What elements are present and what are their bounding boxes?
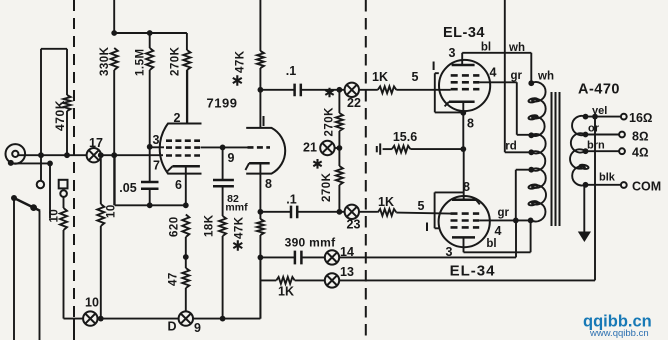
tube EL34 upper cathode lead pin8 <box>462 102 464 149</box>
wire or 8ohm <box>586 134 620 136</box>
svg-text:or: or <box>588 123 600 135</box>
node 620/47 junction <box>183 254 189 260</box>
tube EL34 lower grids <box>451 212 480 215</box>
resistor 270K (upper) <box>338 90 340 113</box>
resistor 10 (left) <box>63 197 65 208</box>
svg-text:13: 13 <box>340 265 354 279</box>
svg-text:7199: 7199 <box>207 96 238 111</box>
node bus right of X10 <box>98 316 104 322</box>
capacitor .1 upper <box>295 84 301 97</box>
wire lower screen to tap <box>516 170 532 221</box>
switch S1 lever <box>14 198 40 211</box>
svg-text:.1: .1 <box>286 64 296 78</box>
node primary gr tap <box>528 167 534 173</box>
tube 7199 triode envelope <box>246 128 285 174</box>
node lower coupling junction <box>337 209 343 215</box>
wire 470K bracket top <box>41 48 67 50</box>
wire plate to transformer <box>462 53 531 83</box>
wire rd B+ lead <box>505 0 532 152</box>
connector 14 <box>325 250 339 264</box>
resistor 1.5M <box>149 33 151 48</box>
label pin 1 (7199) <box>263 116 265 126</box>
node primary rd tap <box>528 149 534 155</box>
terminal open circle below input line <box>37 181 44 188</box>
transformer secondary winding <box>570 116 585 186</box>
svg-text:brn: brn <box>587 140 605 152</box>
svg-text:9: 9 <box>194 321 201 335</box>
node input/470K-left junction <box>38 152 44 158</box>
shield dashed line right <box>365 0 367 340</box>
primary loop crossover <box>528 200 538 206</box>
wire secondary ground <box>583 185 585 232</box>
node secondary 16ohm tap <box>583 114 589 120</box>
primary loop crossover <box>528 184 538 190</box>
svg-text:1K: 1K <box>278 285 294 299</box>
connector 17 <box>87 148 101 162</box>
resistor 47 <box>185 257 187 268</box>
connector 21 <box>320 141 334 155</box>
svg-text:470K: 470K <box>53 100 67 131</box>
label pin 1 upper <box>433 62 435 71</box>
svg-text:A-470: A-470 <box>578 82 620 98</box>
tube 7199 triode cathode <box>249 162 270 165</box>
svg-text:8: 8 <box>265 177 272 191</box>
wire pin8 to lower cap <box>260 211 290 213</box>
terminal 4 ohm <box>619 148 625 154</box>
resistor 1K (lower) <box>359 211 378 213</box>
tube EL34 upper envelope <box>439 60 490 111</box>
switch S1 terminal B <box>30 204 37 211</box>
resistor 1K (feedback) <box>260 279 276 281</box>
tube 7199 pentode cathode lead pin6 <box>185 166 187 205</box>
node bus/620 <box>183 202 189 208</box>
terminal square <box>59 180 68 189</box>
svg-text:bl: bl <box>486 238 496 250</box>
svg-text:16Ω: 16Ω <box>629 111 653 125</box>
tube EL34 upper suppressor tie pin1 <box>435 73 461 112</box>
tube EL34 lower cathode lead pin8 <box>463 149 465 200</box>
transformer core <box>551 92 553 226</box>
svg-text:270K: 270K <box>321 172 333 202</box>
tube 7199 pentode grid rows <box>166 139 200 142</box>
node 330K/input junction <box>111 152 117 158</box>
svg-text:620: 620 <box>169 216 181 237</box>
terminal 16 ohm <box>621 114 627 120</box>
resistor *47K (plate) <box>259 0 261 51</box>
switch S1 terminal A <box>11 195 17 201</box>
node cathode junction <box>460 146 466 152</box>
svg-text:1K: 1K <box>378 195 394 209</box>
input jack J1 <box>6 144 26 164</box>
node feedback takeoff <box>592 114 598 120</box>
tube EL34 lower plate <box>452 236 475 239</box>
tube 7199 triode grid row <box>248 146 271 149</box>
tube 7199 pentode envelope <box>160 124 202 174</box>
svg-text:22: 22 <box>347 96 361 110</box>
node pin8 junction <box>258 209 264 215</box>
svg-text:www.qqibb.cn: www.qqibb.cn <box>589 328 649 339</box>
resistor 10 (right) <box>100 155 102 204</box>
terminal open circle <box>60 190 67 197</box>
svg-text:blk: blk <box>599 172 616 184</box>
svg-text:6: 6 <box>175 178 182 192</box>
ground chassis arrow <box>578 232 591 243</box>
tube EL34 upper cathode <box>449 101 475 104</box>
node rail/1.5M <box>147 30 153 36</box>
svg-text:10: 10 <box>85 296 99 310</box>
svg-text:10: 10 <box>106 204 118 218</box>
node secondary common tap <box>583 182 589 188</box>
svg-text:4: 4 <box>490 66 497 80</box>
wire feedback from 16ohm <box>339 117 595 281</box>
svg-text:15.6: 15.6 <box>393 130 417 144</box>
capacitor 82mmf <box>222 147 224 180</box>
svg-text:gr: gr <box>511 70 523 82</box>
svg-text:270K: 270K <box>324 107 336 137</box>
svg-text:330K: 330K <box>99 46 111 76</box>
node bus/18K <box>220 316 226 322</box>
node 82mmf tap <box>220 145 226 151</box>
svg-text:47K: 47K <box>234 216 246 239</box>
tube 7199 triode plate lead pin1 <box>259 90 261 128</box>
secondary loop crossover <box>579 164 589 170</box>
wire pin4 screen upper <box>479 82 531 135</box>
svg-text:18K: 18K <box>204 214 216 237</box>
node screen node <box>513 218 519 224</box>
node cap/270K junction <box>337 87 343 93</box>
svg-text:17: 17 <box>89 136 103 150</box>
svg-text:1.5M: 1.5M <box>135 48 147 76</box>
wire plate to cap <box>260 89 294 91</box>
svg-text:390 mmf: 390 mmf <box>285 236 336 250</box>
node 21 junction <box>337 145 343 151</box>
svg-text:8Ω: 8Ω <box>632 130 649 144</box>
wire B+ rail <box>114 0 187 33</box>
connector 23 <box>345 205 359 219</box>
svg-text:gr: gr <box>498 207 510 219</box>
svg-text:7: 7 <box>153 159 160 173</box>
tube EL34 upper plate lead pin3 <box>461 53 463 65</box>
svg-text:270K: 270K <box>170 46 182 76</box>
node primary top <box>528 80 534 86</box>
resistor 470K <box>66 49 68 95</box>
node plate junction <box>258 87 264 93</box>
ground return symbol <box>376 146 378 152</box>
capacitor .1 lower <box>291 206 297 219</box>
tube EL34 lower plate lead pin3 <box>463 237 465 252</box>
svg-text:4: 4 <box>495 224 502 238</box>
wire plate to triode grid <box>201 146 249 148</box>
wire switch A down <box>13 200 15 340</box>
node input/470K junction <box>64 152 70 158</box>
node secondary 4ohm tap <box>583 148 589 154</box>
capacitor 390mmf <box>295 251 302 265</box>
resistor 15.6 <box>383 148 392 150</box>
svg-text:3: 3 <box>449 46 456 60</box>
tube 7199 pentode cathode <box>172 165 200 168</box>
svg-text:2: 2 <box>174 111 181 125</box>
node 390mmf junction <box>258 255 264 261</box>
svg-text:mmf: mmf <box>225 202 248 214</box>
primary loop crossover <box>528 114 538 120</box>
wire pin3 grid <box>150 146 164 148</box>
connector D9 <box>179 311 193 325</box>
svg-text:yel: yel <box>592 105 607 117</box>
resistor *47K (cathode) <box>259 212 261 219</box>
svg-text:3: 3 <box>153 133 160 147</box>
wire to 390mmf <box>260 256 294 258</box>
connector 22 <box>345 83 359 97</box>
svg-text:EL-34: EL-34 <box>450 263 496 280</box>
terminal 8 ohm <box>619 132 625 138</box>
svg-text:bl: bl <box>481 42 491 54</box>
svg-text:COM: COM <box>632 180 661 194</box>
svg-text:rd: rd <box>505 141 517 153</box>
tube 7199 triode cathode lead pin8 <box>259 163 261 212</box>
tube EL34 upper grids <box>451 74 480 77</box>
wire 470K left leg <box>40 49 42 181</box>
resistor 1K (upper) <box>359 89 378 91</box>
wire pin4 screen lower <box>479 219 530 221</box>
label pin 1 lower <box>426 223 428 232</box>
svg-text:8: 8 <box>463 180 470 194</box>
svg-text:.1: .1 <box>286 193 296 207</box>
tube EL34 lower suppressor tie pin1 <box>435 192 464 228</box>
wire input signal <box>18 154 163 156</box>
svg-text:5: 5 <box>412 70 419 84</box>
tube EL34 lower cathode <box>452 199 476 202</box>
wire cathode bus <box>115 155 186 205</box>
wire switch B down <box>39 211 41 340</box>
svg-text:.05: .05 <box>119 181 136 195</box>
svg-text:4Ω: 4Ω <box>632 146 649 160</box>
wire blk common <box>586 184 621 186</box>
resistor 330K <box>111 48 118 70</box>
node primary wh tap <box>528 132 534 138</box>
svg-text:47K: 47K <box>235 50 247 73</box>
svg-text:wh: wh <box>508 42 525 54</box>
node primary bottom <box>528 218 534 224</box>
wire X21 stub <box>335 147 340 149</box>
node cap bottom <box>147 202 153 208</box>
svg-text:23: 23 <box>347 218 361 232</box>
svg-text:21: 21 <box>303 141 317 155</box>
connector 13 <box>325 273 339 287</box>
node grid junction <box>147 144 153 150</box>
svg-text:D: D <box>167 320 176 334</box>
svg-text:5: 5 <box>418 199 425 213</box>
wire brn 4ohm <box>586 150 620 152</box>
svg-text:wh: wh <box>537 71 554 83</box>
node X17 right junction <box>98 152 104 158</box>
svg-text:3: 3 <box>446 245 453 259</box>
capacitor .05 <box>149 147 151 182</box>
node pin1/pin8 tie <box>460 110 466 116</box>
primary loop crossover <box>528 97 538 103</box>
transformer primary winding <box>531 82 546 221</box>
resistor 270K (lower) <box>338 148 340 166</box>
svg-text:8: 8 <box>467 117 474 131</box>
terminal COM <box>621 182 627 188</box>
node rail/330K <box>111 30 117 36</box>
svg-text:10: 10 <box>49 209 61 223</box>
resistor 270K (first) <box>186 33 188 50</box>
wire input ground <box>12 163 50 218</box>
node secondary 8ohm tap <box>583 132 589 138</box>
svg-text:EL-34: EL-34 <box>443 25 485 41</box>
wire lower plate to transformer <box>464 220 531 252</box>
svg-text:9: 9 <box>228 151 235 165</box>
wire X14 to screen node <box>339 220 516 257</box>
connector 10 <box>83 311 97 325</box>
resistor 18K <box>219 216 226 236</box>
tube EL34 lower envelope <box>439 196 490 247</box>
node ground stub dot <box>47 161 53 167</box>
svg-text:47: 47 <box>168 272 180 286</box>
tube EL34 upper plate <box>452 64 475 67</box>
wire yel 16ohm <box>586 116 621 118</box>
svg-text:1K: 1K <box>372 70 388 84</box>
wire ground bus <box>64 257 261 318</box>
resistor 620 <box>182 215 189 238</box>
shield dashed line left <box>73 0 75 318</box>
tube 7199 pentode plate lead pin2 <box>186 70 188 123</box>
